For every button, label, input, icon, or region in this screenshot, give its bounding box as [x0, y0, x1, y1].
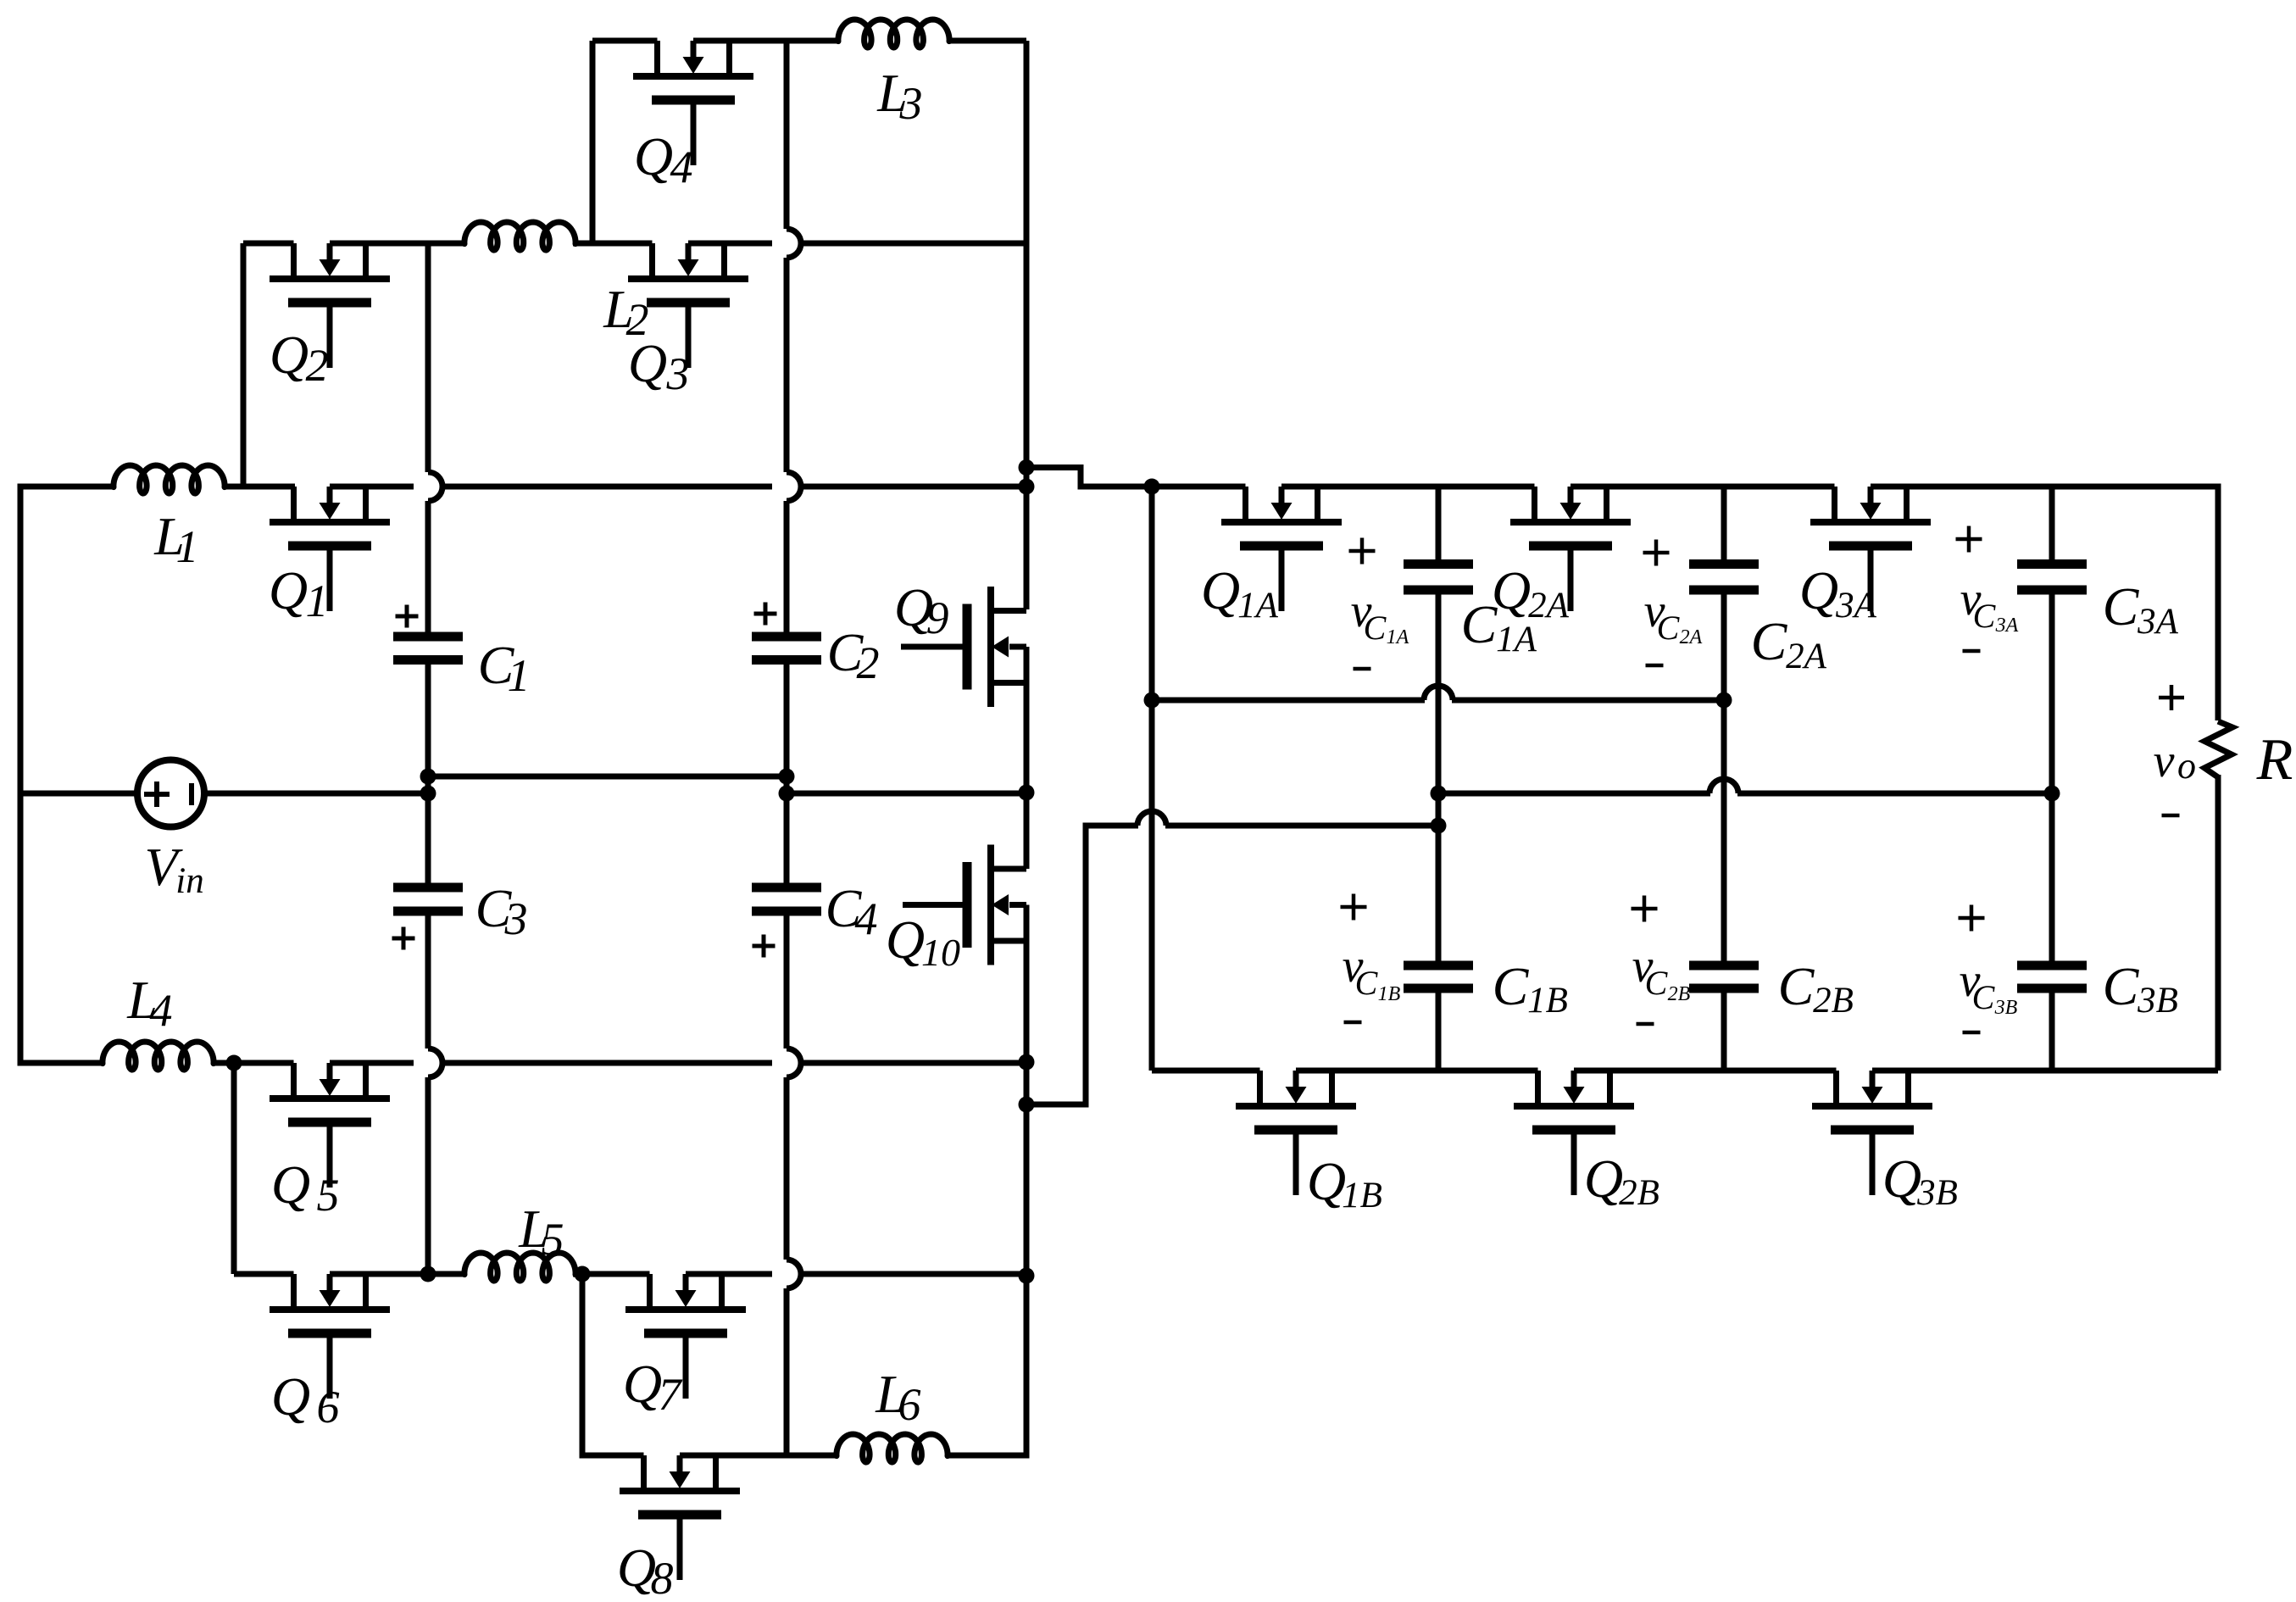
Vin plus sign — [144, 782, 170, 807]
wire C4 down to L6 — [784, 916, 790, 1049]
wire Q2 source to L2 — [330, 241, 464, 247]
junction dots output node — [1019, 459, 1035, 476]
wire link Q10 source to C1B top rail — [1026, 826, 1138, 1104]
wire Q6 source to L5 node — [330, 1271, 464, 1277]
Q3 arrow — [686, 243, 692, 260]
Q10 gate bar — [963, 862, 972, 948]
capacitor C2 — [752, 632, 821, 642]
Q7 drain lead — [647, 1274, 653, 1310]
Q5 channel bar — [270, 1095, 390, 1102]
junction dot L5 / Q8 bypass — [575, 1266, 591, 1282]
Q1B drain lead — [1257, 1071, 1263, 1106]
Q2 gate bar — [288, 298, 371, 308]
Q3B arrow — [1870, 1071, 1876, 1087]
transistor Q6 — [270, 1274, 390, 1399]
svg-text:10: 10 — [921, 931, 960, 974]
wire Q9 source to Q10 drain (mid node) — [1024, 647, 1030, 869]
svg-text:6: 6 — [317, 1382, 340, 1432]
junction dot output column / C2A rail — [1144, 693, 1160, 709]
wire Q3 rail to Q9 column — [801, 241, 1026, 247]
hop: C2A rail over C1A column at (1697,826) — [1424, 686, 1453, 700]
label vC2B with polarity — [1632, 896, 1658, 922]
transistor Q2B — [1514, 1071, 1634, 1195]
svg-text:8: 8 — [651, 1553, 674, 1602]
Q9 channel bar — [987, 587, 994, 707]
wire output top rail to Q1A — [1152, 484, 1246, 490]
Q2A channel bar — [1510, 519, 1631, 526]
transistor Q5 — [270, 1063, 390, 1188]
wire Q1 source to C1 column (hop) — [330, 484, 414, 490]
junction dots C1A bottom — [1431, 786, 1447, 802]
Q3A arrow — [1868, 487, 1874, 503]
wire left border (Vin loop): top lead, left edge, bottom lead — [20, 487, 114, 1063]
svg-text:Q: Q — [1492, 560, 1531, 620]
svg-text:C: C — [1645, 964, 1669, 1002]
wire Vin positive lead to C1/C3 node — [208, 791, 429, 797]
inductor L6 coil — [837, 1434, 948, 1462]
plus sign C2 — [754, 603, 777, 626]
wire C1 column from Q2 rail — [425, 243, 431, 472]
wire L2 to Q3 drain — [573, 241, 653, 247]
Q3A gate stub — [1868, 550, 1874, 611]
capacitor C3A — [2017, 559, 2087, 569]
transistor Q2 — [270, 243, 390, 368]
Q10 source lead — [991, 938, 1026, 944]
svg-text:3B: 3B — [1916, 1173, 1958, 1213]
svg-text:Q: Q — [1799, 560, 1838, 620]
Q9 gate lead — [901, 644, 963, 650]
svg-text:Q: Q — [628, 333, 667, 393]
wire C2B to bottom rail — [1721, 993, 1727, 1071]
wire Q3 source toward Q9 column — [688, 241, 772, 247]
junction dot Q7 rail at Q10 column — [1019, 1268, 1035, 1284]
Q7 gate bar — [644, 1329, 727, 1338]
svg-text:5: 5 — [542, 1214, 564, 1265]
wire C1A bottom rail to C3A node — [1438, 791, 1710, 797]
Q9 arrow — [1009, 644, 1026, 650]
label vC2A with polarity — [1643, 540, 1670, 566]
wire Vin negative lead — [20, 791, 135, 797]
wire Q1B source to Q2B drain — [1296, 1068, 1538, 1074]
transistor Q4 — [633, 41, 753, 165]
Q3A source lead — [1904, 487, 1910, 522]
Q6 gate bar — [288, 1329, 371, 1338]
svg-text:C: C — [2103, 576, 2140, 637]
Q3B gate stub — [1870, 1134, 1876, 1195]
transistor Q1A — [1221, 487, 1342, 611]
Q1B channel bar — [1236, 1103, 1356, 1110]
Q4 drain lead — [654, 41, 660, 76]
Q1A arrow — [1279, 487, 1285, 503]
svg-text:7: 7 — [659, 1369, 683, 1420]
Q8 drain lead — [641, 1455, 647, 1491]
Q1A channel bar — [1221, 519, 1342, 526]
svg-text:Q: Q — [1307, 1151, 1346, 1211]
svg-text:1A: 1A — [1237, 586, 1279, 626]
plus sign C4 — [753, 935, 776, 958]
Q3B source lead — [1905, 1071, 1911, 1106]
svg-text:3B: 3B — [2137, 981, 2178, 1021]
wire L1 to Q1 drain (node A top rail) — [225, 484, 295, 490]
hop: C3 column over Q5 rail at (505,1254) — [428, 1049, 442, 1077]
capacitor C2A — [1689, 559, 1759, 569]
Q1A source lead — [1315, 487, 1320, 522]
wire Q2A source to Q3A drain — [1571, 484, 1835, 490]
transistor Q2A — [1510, 487, 1631, 611]
junction dot C2A bottom — [1716, 693, 1732, 709]
svg-text:1: 1 — [508, 650, 531, 701]
hop: C3A rail over C2A column at (2034,936) — [1709, 779, 1738, 793]
Q2 gate stub — [327, 307, 333, 368]
junction dot L4/Q6-bypass — [226, 1055, 242, 1071]
Q3 gate bar — [647, 298, 730, 308]
wire C2A to C2B — [1721, 595, 1727, 961]
svg-text:1: 1 — [306, 576, 329, 626]
Q10 channel bar — [987, 845, 994, 965]
svg-text:C: C — [1364, 609, 1387, 647]
hop: C4 column over Q7 rail at (928,1503) — [787, 1260, 801, 1288]
wire top rail C2 column to Q9 column — [801, 484, 1026, 490]
svg-text:1B: 1B — [1378, 983, 1401, 1005]
svg-text:2B: 2B — [1813, 981, 1854, 1021]
Q6 drain lead — [291, 1274, 297, 1310]
svg-text:1: 1 — [176, 521, 199, 572]
capacitor C3B — [2017, 961, 2087, 971]
wire Q10 source column down to L6 — [948, 905, 1026, 1456]
wire L5 to Q7 drain — [573, 1271, 650, 1277]
svg-text:3A: 3A — [1995, 615, 2019, 637]
Q1 drain lead — [291, 487, 297, 522]
Q2B drain lead — [1535, 1071, 1541, 1106]
svg-text:6: 6 — [898, 1379, 921, 1430]
Q1B source lead — [1329, 1071, 1335, 1106]
svg-text:o: o — [2177, 745, 2196, 787]
transistor Q10 — [903, 845, 1026, 965]
svg-text:C: C — [1493, 956, 1530, 1016]
svg-text:3A: 3A — [2137, 602, 2179, 642]
Q10 arrow — [1009, 902, 1026, 908]
wire mid rail upper (C1 node to C2 node) — [428, 774, 787, 780]
hop: C1B link over output column at (1359,974) — [1137, 811, 1166, 826]
transistor Q3 — [628, 243, 748, 368]
svg-text:3A: 3A — [1835, 586, 1877, 626]
svg-text:2: 2 — [306, 340, 329, 391]
junction dot C3 column / Q6 source / L5 — [420, 1266, 436, 1282]
capacitor C3 — [393, 883, 463, 893]
hop: C2 column over Q3 rail at (928,287) — [787, 229, 801, 258]
svg-text:5: 5 — [317, 1170, 340, 1221]
wire R bottom to bottom rail — [2215, 775, 2221, 1071]
Q7 gate stub — [683, 1338, 689, 1399]
wire Q8 bypass vertical — [582, 1274, 644, 1455]
Q2B source lead — [1607, 1071, 1613, 1106]
transistor Q3B — [1812, 1071, 1932, 1195]
wire C3 down to Q6 rail — [425, 916, 431, 1049]
Q6 channel bar — [270, 1306, 390, 1313]
svg-text:C: C — [1778, 956, 1815, 1016]
Q6 gate stub — [327, 1338, 333, 1399]
transistor Q7 — [625, 1274, 746, 1399]
svg-text:1B: 1B — [1342, 1176, 1382, 1215]
Q2A source lead — [1604, 487, 1609, 522]
svg-text:Q: Q — [1882, 1149, 1921, 1209]
Q2B arrow — [1571, 1071, 1577, 1087]
svg-text:C: C — [2103, 956, 2140, 1016]
hop: C4 column over Q5 rail at (928,1254) — [787, 1049, 801, 1077]
wire C2 column from Q4 rail — [784, 41, 790, 229]
Q3A channel bar — [1810, 519, 1931, 526]
Q5 drain lead — [291, 1063, 297, 1099]
junction dots mid rails — [420, 769, 436, 785]
wire output bottom rail from column — [1152, 1068, 1260, 1074]
svg-text:R: R — [2256, 727, 2293, 793]
Q3B drain lead — [1833, 1071, 1839, 1106]
Q7 source lead — [719, 1274, 725, 1310]
svg-text:2B: 2B — [1619, 1173, 1659, 1213]
Q5 arrow — [327, 1063, 333, 1080]
svg-text:4: 4 — [150, 985, 173, 1036]
Q1A gate stub — [1279, 550, 1285, 611]
label vC3A with polarity — [1956, 526, 1982, 553]
wire C1A to C1B — [1436, 595, 1442, 961]
Q6 source lead — [363, 1274, 369, 1310]
junction dot C3A bottom / vo node — [2044, 786, 2060, 802]
wire L4 to Q5 drain — [212, 1060, 294, 1066]
label vC3B with polarity — [1959, 905, 1985, 932]
Q1 arrow — [327, 487, 333, 503]
wire C3A column top — [2049, 487, 2055, 559]
Q4 arrow — [691, 41, 697, 58]
wire top rail C1 to C2 column — [442, 484, 772, 490]
wire L3 to top-right corner — [949, 38, 1026, 44]
Q2B gate bar — [1532, 1126, 1615, 1135]
wire Q5 source toward right — [330, 1060, 414, 1066]
Q9 drain lead — [991, 608, 1026, 614]
Q2A gate stub — [1568, 550, 1574, 611]
svg-text:Q: Q — [886, 909, 925, 970]
resistor R zigzag — [2204, 721, 2232, 777]
Q8 gate stub — [677, 1519, 683, 1580]
Vin minus bar — [189, 783, 194, 805]
svg-text:v: v — [2154, 735, 2175, 787]
hop: C2 column over top rail at (928,574) — [787, 472, 801, 501]
Q3 gate stub — [686, 307, 692, 368]
wire C1B to bottom rail — [1436, 993, 1442, 1071]
Q5 gate stub — [327, 1126, 333, 1188]
capacitor C4 — [752, 883, 821, 893]
inductor L5 coil — [464, 1253, 575, 1281]
junction dot link C1B — [1019, 1097, 1035, 1113]
wire C1 to C3 — [425, 665, 431, 883]
Q2 source lead — [363, 243, 369, 279]
svg-text:C: C — [1461, 594, 1498, 654]
wire C3B to bottom rail — [2049, 993, 2055, 1071]
Q8 source lead — [713, 1455, 719, 1491]
svg-text:3: 3 — [504, 893, 528, 944]
Q1 gate stub — [327, 550, 333, 611]
svg-text:Q: Q — [270, 325, 309, 385]
svg-text:C: C — [1751, 611, 1788, 671]
svg-text:2B: 2B — [1668, 983, 1691, 1005]
Q1A gate bar — [1240, 542, 1323, 551]
Q8 gate bar — [638, 1510, 721, 1520]
capacitor C2B — [1689, 961, 1759, 971]
wire C2 to C4 — [784, 665, 790, 883]
wire Q6 bypass vertical — [231, 1063, 237, 1274]
Q2 arrow — [327, 243, 333, 260]
svg-text:in: in — [175, 861, 203, 901]
wire Q6 drain rail — [234, 1271, 294, 1277]
Q2B channel bar — [1514, 1103, 1634, 1110]
Q3 drain lead — [649, 243, 655, 279]
capacitor C1B — [1404, 961, 1473, 971]
wire Q3B source to right edge bottom — [1872, 1068, 2218, 1074]
capacitor C1 — [393, 632, 463, 642]
Q2 channel bar — [270, 275, 390, 282]
wire Q4 drain rail — [592, 38, 658, 44]
Q1 channel bar — [270, 519, 390, 526]
wire C3A to C3B — [2049, 595, 2055, 961]
wire Q9 column upper (L3 corner down to Q9 drain) — [1024, 41, 1030, 609]
svg-text:4: 4 — [855, 893, 878, 944]
svg-text:3: 3 — [899, 78, 923, 129]
svg-text:Q: Q — [271, 1366, 310, 1427]
Q2 drain lead — [291, 243, 297, 279]
inductor L4 coil — [103, 1042, 214, 1070]
svg-text:C: C — [1355, 964, 1379, 1002]
wire jog node A rail to output rail — [1026, 468, 1152, 487]
inductor L2 coil — [464, 222, 575, 250]
svg-text:9: 9 — [926, 592, 949, 643]
svg-text:Q: Q — [634, 126, 673, 186]
inductor L3 coil — [838, 19, 949, 47]
svg-text:Q: Q — [271, 1154, 310, 1215]
Q3 source lead — [721, 243, 727, 279]
svg-text:2A: 2A — [1680, 626, 1703, 648]
label vC1A with polarity — [1349, 538, 1376, 565]
wire Q4 source to L3 — [693, 38, 838, 44]
Q3B gate bar — [1831, 1126, 1914, 1135]
wire C2A bottom rail — [1152, 698, 1425, 704]
wire Q2B source to Q3B drain — [1574, 1068, 1837, 1074]
Q8 arrow — [677, 1455, 683, 1472]
svg-text:3: 3 — [666, 348, 690, 399]
wire mid rail lower (C2 node to Q9/Q10 mid node) — [787, 791, 1026, 797]
plus sign C3 — [392, 927, 415, 950]
Q3 channel bar — [628, 275, 748, 282]
Q1B arrow — [1293, 1071, 1299, 1087]
wire output column (node A to bottom rail) — [1149, 487, 1155, 1071]
transistor Q9 — [901, 587, 1026, 707]
Q2A arrow — [1568, 487, 1574, 503]
wire C2A column top — [1721, 487, 1727, 559]
wire Q2 bypass (drain rail down to node A) — [241, 243, 247, 487]
svg-text:C: C — [1972, 978, 1996, 1016]
svg-text:2A: 2A — [1786, 637, 1827, 676]
Q1 source lead — [363, 487, 369, 522]
Q6 arrow — [327, 1274, 333, 1291]
Q9 gate bar — [963, 604, 972, 690]
wire C1A column top — [1436, 487, 1442, 559]
Q4 source lead — [726, 41, 732, 76]
Q1B gate bar — [1254, 1126, 1337, 1135]
Q1 gate bar — [288, 542, 371, 551]
Q10 drain lead — [991, 866, 1026, 872]
svg-text:4: 4 — [670, 142, 693, 192]
svg-text:Q: Q — [1201, 560, 1240, 620]
svg-text:Q: Q — [623, 1354, 662, 1414]
svg-text:1A: 1A — [1387, 626, 1409, 648]
Q3A gate bar — [1829, 542, 1912, 551]
Q5 source lead — [363, 1063, 369, 1099]
Q7 channel bar — [625, 1306, 746, 1313]
Q3B channel bar — [1812, 1103, 1932, 1110]
wire Q1A source to Q2A drain — [1281, 484, 1535, 490]
inductor L1 coil — [114, 465, 225, 493]
svg-text:1A: 1A — [1496, 620, 1537, 659]
junction dot Q10 source / Q5 rail — [1019, 1054, 1035, 1071]
Q2A gate bar — [1529, 542, 1612, 551]
Q9 source lead — [991, 680, 1026, 686]
hop: C1 column over top rail at (505,574) — [428, 472, 442, 501]
Q7 arrow — [683, 1274, 689, 1291]
svg-text:Q: Q — [269, 560, 308, 620]
wire Q2 drain rail — [243, 241, 294, 247]
svg-text:3B: 3B — [1994, 997, 2018, 1019]
Q2B gate stub — [1571, 1134, 1577, 1195]
Q3A drain lead — [1832, 487, 1837, 522]
Q4 gate stub — [691, 104, 697, 165]
label vo with polarity — [2159, 685, 2184, 710]
Q2A drain lead — [1532, 487, 1537, 522]
wire Q4 bypass vertical (L2 node up to Q4 rail) — [590, 41, 596, 243]
capacitor C1A — [1404, 559, 1473, 569]
transistor Q8 — [620, 1455, 740, 1580]
Q4 gate bar — [652, 96, 735, 105]
svg-text:Q: Q — [1584, 1149, 1623, 1209]
svg-text:C: C — [1973, 597, 1997, 635]
wire Q8 source to L6 node — [680, 1453, 787, 1459]
voltage source Vin circle — [137, 760, 204, 827]
transistor Q3A — [1810, 487, 1931, 611]
svg-text:1B: 1B — [1527, 981, 1568, 1021]
transistor Q1 — [270, 487, 390, 611]
Q4 channel bar — [633, 73, 753, 80]
transistor Q1B — [1236, 1071, 1356, 1195]
Q5 gate bar — [288, 1118, 371, 1127]
Q1A drain lead — [1243, 487, 1248, 522]
Q10 gate lead — [903, 902, 963, 908]
wire Q7 source toward Q10 column — [686, 1271, 772, 1277]
plus sign C1 — [396, 605, 419, 628]
svg-text:2: 2 — [857, 637, 880, 688]
label vC1B with polarity — [1341, 894, 1367, 921]
Q8 channel bar — [620, 1488, 740, 1494]
wire Q3A source to right edge — [1871, 487, 2218, 720]
Q1B gate stub — [1293, 1134, 1299, 1195]
svg-text:C: C — [1657, 609, 1681, 647]
